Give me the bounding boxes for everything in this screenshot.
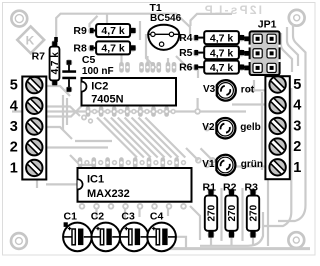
pad JP1 feed <box>244 66 250 71</box>
diamond K logo <box>17 26 44 53</box>
svg-text:R7: R7 <box>32 50 46 62</box>
wire <box>138 208 140 217</box>
pad <box>170 109 175 114</box>
mounting hole bottom-left <box>11 233 27 249</box>
pad <box>209 157 216 164</box>
pad oblong <box>157 62 162 73</box>
wire <box>176 237 186 248</box>
svg-text:V2: V2 <box>202 122 215 133</box>
pad <box>194 108 201 115</box>
svg-text:1: 1 <box>10 160 18 176</box>
svg-text:100 nF: 100 nF <box>82 66 114 77</box>
svg-text:4: 4 <box>10 98 18 114</box>
wire <box>145 118 185 158</box>
pad oblong <box>161 157 166 168</box>
pad <box>166 203 173 210</box>
pad oblong <box>105 157 110 168</box>
svg-text:5: 5 <box>10 78 18 94</box>
wire <box>97 118 137 158</box>
pad JP1 feed <box>244 51 250 56</box>
wire <box>106 13 108 24</box>
pad <box>167 160 172 165</box>
wire <box>95 208 97 218</box>
wire <box>46 127 72 139</box>
svg-text:4,7 k: 4,7 k <box>50 52 61 75</box>
svg-text:4,7 k: 4,7 k <box>210 47 234 59</box>
capacitor C4 electrolytic <box>147 210 176 251</box>
IC U2: IC2 7405N <box>82 78 177 106</box>
pad <box>112 160 117 165</box>
svg-text:R6: R6 <box>179 62 193 74</box>
wire <box>132 118 172 158</box>
svg-text:2: 2 <box>293 139 301 155</box>
pad <box>81 115 87 121</box>
svg-text:4: 4 <box>293 98 301 114</box>
terminal block right <box>265 76 289 179</box>
resistor R1 270 <box>203 182 218 239</box>
svg-text:V1: V1 <box>202 159 215 170</box>
pad <box>204 125 210 131</box>
capacitor C5 <box>62 54 113 93</box>
pad oblong <box>119 157 124 168</box>
pad <box>93 203 100 210</box>
wire <box>281 33 292 72</box>
pad <box>151 203 158 210</box>
pad oblong <box>166 62 171 73</box>
wire <box>200 212 263 246</box>
svg-text:JP1: JP1 <box>258 19 277 31</box>
wire <box>209 164 215 166</box>
pad oblong <box>133 157 138 168</box>
pad oblong <box>125 106 130 117</box>
pad oblong <box>138 106 143 117</box>
pad oblong <box>151 106 156 117</box>
pad <box>204 162 210 168</box>
pad <box>88 118 93 123</box>
pad <box>122 203 129 210</box>
svg-text:4,7 k: 4,7 k <box>101 43 125 55</box>
wire <box>70 155 96 165</box>
wire <box>155 247 310 250</box>
pad oblong <box>139 62 144 73</box>
wire <box>46 107 80 117</box>
pad <box>126 160 131 165</box>
wire <box>138 118 178 158</box>
svg-text:R9: R9 <box>73 25 87 37</box>
IC1 MAX232 <box>78 168 192 202</box>
pad oblong <box>164 106 169 117</box>
resistor R8 <box>73 41 136 54</box>
svg-text:5: 5 <box>293 77 301 93</box>
wire <box>232 103 265 105</box>
wire <box>293 24 306 108</box>
svg-text:K: K <box>26 33 35 47</box>
wire <box>253 80 255 92</box>
pad oblong <box>147 157 152 168</box>
wire <box>167 58 169 64</box>
wire <box>12 110 246 112</box>
resistor R7 <box>32 37 61 87</box>
connector JP1 <box>249 19 281 75</box>
pad oblong <box>174 157 179 168</box>
wire <box>56 14 190 38</box>
svg-text:C5: C5 <box>82 54 96 66</box>
transistor T1 BC546 <box>148 2 181 50</box>
svg-text:R5: R5 <box>179 47 193 59</box>
LED V3 rot <box>203 80 255 100</box>
svg-text:IC1: IC1 <box>87 174 104 186</box>
wire <box>252 238 254 246</box>
mounting hole bottom-right <box>288 232 304 248</box>
resistor R5 <box>179 46 250 59</box>
wire <box>120 54 122 64</box>
wire <box>167 208 169 216</box>
capacitor C2 electrolytic <box>91 210 120 251</box>
wire <box>46 183 78 185</box>
pad <box>98 160 103 165</box>
svg-text:grün: grün <box>241 159 263 170</box>
pad <box>180 203 187 210</box>
svg-text:gelb: gelb <box>240 122 261 133</box>
resistor R2 270 <box>223 182 238 239</box>
pad oblong <box>92 157 97 168</box>
svg-text:C1: C1 <box>64 210 78 222</box>
svg-text:IC2: IC2 <box>91 80 108 92</box>
svg-text:270: 270 <box>248 204 259 221</box>
svg-text:R8: R8 <box>73 43 87 55</box>
pad <box>79 203 86 210</box>
wire <box>146 56 148 64</box>
wire <box>36 180 38 188</box>
wire <box>209 127 215 129</box>
svg-text:1: 1 <box>293 160 301 176</box>
wire <box>90 16 98 28</box>
svg-text:270: 270 <box>206 204 217 221</box>
svg-text:C4: C4 <box>150 210 164 222</box>
wire <box>236 165 265 167</box>
wire <box>186 148 198 160</box>
mounting hole top-left <box>11 11 27 27</box>
wire <box>111 118 151 158</box>
svg-text:R4: R4 <box>179 32 193 44</box>
svg-text:7405N: 7405N <box>91 93 123 105</box>
svg-text:BC546: BC546 <box>150 13 182 24</box>
pad <box>144 109 149 114</box>
resistor R6 <box>179 61 250 74</box>
svg-text:T1: T1 <box>150 2 162 14</box>
wire <box>261 92 263 170</box>
wire <box>124 208 126 219</box>
capacitor C3 electrolytic <box>120 210 149 251</box>
pad oblong <box>86 106 91 117</box>
resistor R9 <box>73 24 136 37</box>
pad <box>131 109 136 114</box>
wire <box>267 178 269 246</box>
wire <box>220 188 222 241</box>
pad oblong <box>172 62 177 73</box>
wire <box>46 105 83 117</box>
pad <box>195 157 202 164</box>
LED V1 grün <box>202 155 263 175</box>
svg-text:270: 270 <box>227 204 238 221</box>
pad oblong <box>99 106 104 117</box>
svg-text:2: 2 <box>10 140 18 156</box>
wire <box>191 14 233 26</box>
wire <box>262 88 291 226</box>
wire <box>278 108 306 221</box>
pad oblong <box>145 62 150 73</box>
wire <box>190 206 200 240</box>
svg-text:MAX232: MAX232 <box>87 188 130 200</box>
wire <box>46 146 108 148</box>
wire <box>176 56 210 68</box>
capacitor C1 electrolytic <box>63 210 92 251</box>
wire <box>197 68 199 78</box>
pad <box>108 203 115 210</box>
wire <box>197 98 199 111</box>
pad JP1 feed <box>244 36 250 41</box>
wire <box>241 188 243 241</box>
svg-text:4,7 k: 4,7 k <box>210 62 234 74</box>
svg-text:3: 3 <box>293 118 301 134</box>
wire <box>62 95 64 130</box>
svg-text:V3: V3 <box>203 84 216 95</box>
pad <box>105 109 110 114</box>
svg-text:C2: C2 <box>91 210 105 222</box>
mounting hole top-right <box>289 10 305 26</box>
wire <box>201 148 213 160</box>
resistor R3 270 <box>245 182 260 239</box>
svg-text:4,7 k: 4,7 k <box>210 32 234 44</box>
svg-text:4,7 k: 4,7 k <box>101 25 125 37</box>
svg-text:C3: C3 <box>121 210 135 222</box>
wire <box>146 34 156 68</box>
wire <box>246 89 265 91</box>
pad oblong <box>151 62 156 73</box>
wire <box>230 238 232 246</box>
svg-text:3: 3 <box>10 119 18 135</box>
svg-text:rot: rot <box>241 84 255 95</box>
wire <box>125 118 165 158</box>
wire <box>139 21 141 40</box>
pad <box>139 160 144 165</box>
wire <box>210 238 212 246</box>
pad oblong <box>125 62 130 73</box>
pad <box>153 160 158 165</box>
pad oblong <box>119 62 124 73</box>
LED V2 gelb <box>202 118 260 138</box>
wire <box>104 118 144 158</box>
pad <box>118 109 123 114</box>
pad oblong <box>78 157 83 168</box>
wire <box>267 95 269 160</box>
wire <box>287 27 298 66</box>
pad <box>181 160 186 165</box>
wire <box>66 98 68 125</box>
terminal block left <box>22 77 46 180</box>
pad <box>137 203 144 210</box>
wire <box>75 140 112 142</box>
pad oblong <box>112 106 117 117</box>
pad <box>157 109 162 114</box>
wire <box>118 118 158 158</box>
resistor R4 <box>179 31 250 44</box>
pad <box>92 109 97 114</box>
pad <box>84 160 89 165</box>
wire <box>46 86 70 96</box>
